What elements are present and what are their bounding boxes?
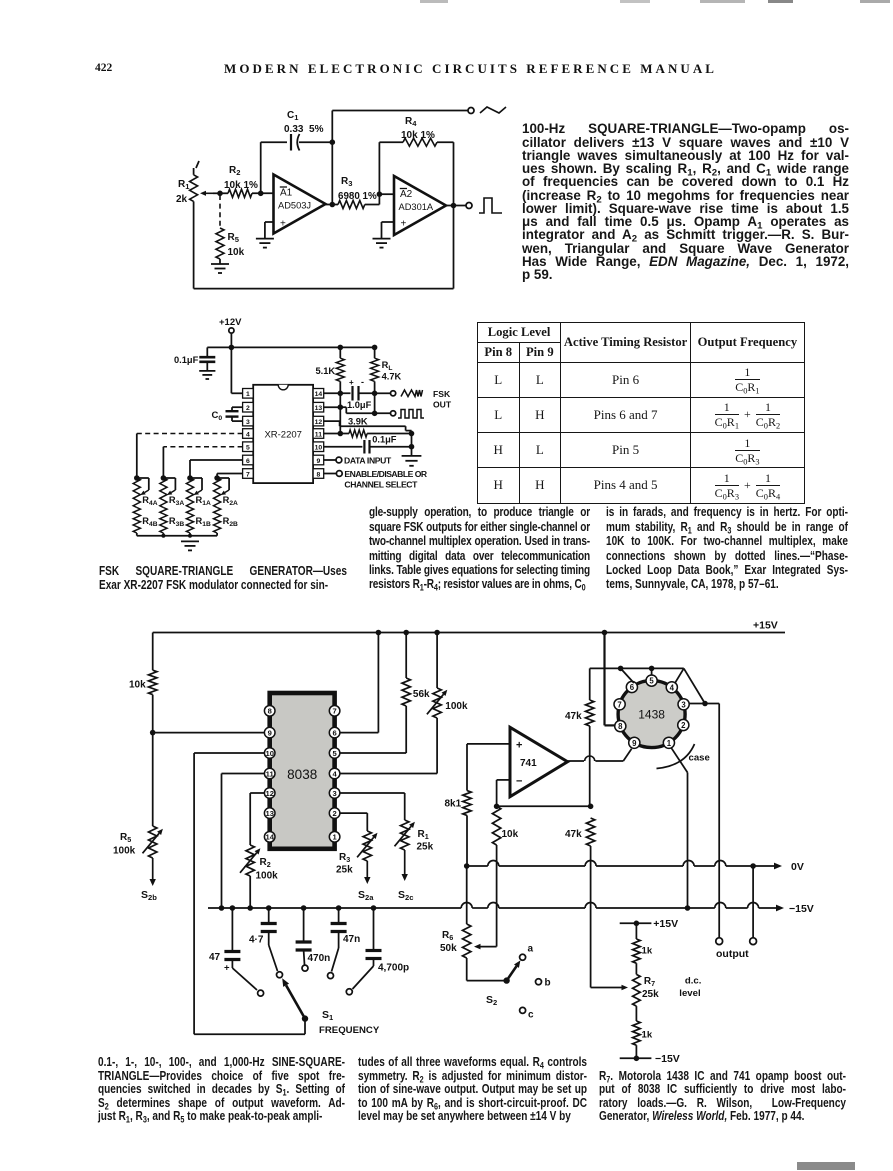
wire 47k to R7 wiper	[591, 985, 628, 991]
resistor 1k lower	[633, 1006, 641, 1058]
svg-text:9: 9	[268, 729, 272, 738]
FSK triangle waveform symbol	[401, 390, 423, 397]
wire +15V to 1438 pin8	[605, 633, 616, 726]
resistor RL 4.7K	[371, 347, 379, 413]
node A1 output	[330, 202, 336, 208]
svg-text:2k: 2k	[176, 194, 188, 205]
wire -15V stub dc chain	[620, 1056, 652, 1062]
potentiometer R2A / resistor R2B chain	[214, 475, 239, 536]
arrow 0V rail end	[774, 863, 782, 870]
wire pin8 enable	[324, 473, 337, 475]
dashed wire pin4 to R4A	[137, 434, 243, 479]
svg-text:4: 4	[670, 683, 675, 692]
svg-text:1: 1	[246, 391, 250, 398]
terminal +12V supply	[219, 317, 242, 333]
wire pin10 line	[324, 446, 363, 448]
svg-text:R1A: R1A	[196, 495, 211, 507]
svg-text:R2: R2	[260, 857, 271, 869]
terminal S1 contact 47n	[328, 973, 334, 979]
terminal S1 contact 4700p	[346, 989, 352, 995]
IC XR-2207 body	[253, 385, 313, 483]
wire R3 to A2 inverting input	[379, 194, 394, 204]
label output	[716, 948, 749, 960]
svg-text:6: 6	[246, 458, 250, 465]
wire 8038 pin3 to R1	[340, 793, 405, 820]
svg-text:R4B: R4B	[142, 516, 157, 528]
resistor 10k middle	[492, 806, 500, 946]
svg-text:5: 5	[246, 445, 250, 452]
terminal output right	[750, 938, 757, 945]
node C1 right junction	[330, 139, 336, 145]
svg-text:+: +	[349, 378, 354, 387]
label S1	[322, 1009, 334, 1022]
wire bus corner to pin3 node diagonal	[684, 668, 705, 703]
ground at A1	[256, 239, 274, 248]
svg-text:R1: R1	[418, 829, 429, 841]
svg-text:AD503J: AD503J	[278, 201, 311, 211]
label R3 value 25k	[336, 865, 353, 876]
svg-text:+12V: +12V	[219, 317, 242, 328]
svg-text:R6: R6	[442, 930, 453, 942]
label 0.1uF bypass	[174, 355, 199, 365]
node feedback left	[494, 804, 500, 810]
svg-text:+: +	[401, 219, 407, 230]
potentiometer R1A / resistor R1B chain	[186, 475, 211, 536]
svg-text:level: level	[679, 988, 700, 999]
svg-text:25k: 25k	[336, 865, 353, 876]
svg-text:470n: 470n	[308, 953, 331, 964]
node square out junction	[372, 411, 378, 417]
svg-text:R3B: R3B	[169, 516, 184, 528]
wire top output rail (triangle output)	[332, 111, 468, 143]
label 8k1	[445, 799, 462, 810]
wire 8038 pin12 to R2	[250, 793, 264, 845]
label R2	[260, 857, 271, 869]
terminal DATA INPUT	[336, 457, 342, 463]
8038 left pin circles 8-14	[264, 706, 275, 843]
wire +15V stub dc chain	[620, 921, 652, 927]
label R5	[228, 232, 240, 244]
svg-text:+: +	[280, 219, 286, 230]
label R1 bottom	[418, 829, 429, 841]
resistor 3.9K	[349, 430, 412, 437]
resistor 1k upper	[633, 923, 641, 974]
wire A2 noninverting to ground	[382, 222, 395, 239]
svg-text:12: 12	[315, 419, 323, 426]
label FSK OUT	[433, 389, 452, 410]
svg-text:741: 741	[520, 758, 537, 769]
label R3 bottom	[339, 852, 350, 864]
capacitor 470n	[296, 905, 312, 964]
wire pin13 to square output	[324, 404, 390, 413]
op-amp A2 AD301A	[394, 176, 446, 235]
svg-text:S2a: S2a	[358, 889, 374, 902]
wire feedback line	[497, 805, 591, 807]
svg-text:R5: R5	[228, 232, 240, 244]
svg-text:1: 1	[667, 739, 672, 748]
svg-text:R3: R3	[339, 852, 350, 864]
resistor R3 6980 1%	[338, 201, 379, 209]
terminal S2 contact c	[520, 1007, 526, 1013]
label S2 contact b	[545, 978, 551, 989]
wire 8038 pin5 to 56k	[340, 752, 406, 754]
svg-text:+15V: +15V	[753, 620, 778, 632]
svg-text:C0: C0	[212, 410, 223, 422]
wire 8038 pin9 to left vertical	[153, 732, 265, 734]
wire 8038 pin10 down-left	[194, 753, 264, 1034]
label R4	[405, 116, 417, 128]
node 100k rail junction	[434, 630, 440, 636]
node 3.9K left junction	[338, 431, 344, 437]
label R5 bottom	[120, 832, 131, 844]
svg-text:0.1μF: 0.1μF	[372, 434, 397, 444]
node triangle out junction	[372, 391, 378, 397]
potentiometer 100k right	[427, 633, 447, 774]
label R3	[341, 176, 352, 188]
svg-text:DATA INPUT: DATA INPUT	[344, 455, 392, 465]
resistor R6 50k	[463, 866, 471, 981]
svg-text:6: 6	[332, 729, 336, 738]
wire bus to pin5	[651, 668, 653, 675]
arrow R5 to S2b	[150, 858, 156, 886]
label R1	[178, 179, 190, 191]
capacitor 4700p	[353, 905, 382, 989]
wire 1438 pin1 case to -15V	[671, 747, 688, 908]
wire A2 output	[446, 205, 466, 207]
svg-text:S1: S1	[322, 1009, 334, 1022]
node A2 output	[451, 203, 457, 209]
svg-text:XR-2207: XR-2207	[264, 430, 302, 441]
svg-text:50k: 50k	[440, 943, 457, 954]
terminal FSK triangle output	[391, 391, 396, 396]
node 3.9K right junction	[409, 431, 415, 437]
svg-text:1438: 1438	[638, 708, 665, 722]
label R2	[229, 165, 240, 177]
svg-text:a: a	[528, 944, 534, 955]
wire A1 output vertical	[331, 142, 333, 204]
ground under R5	[211, 264, 229, 273]
svg-text:b: b	[545, 978, 551, 989]
svg-text:4: 4	[246, 431, 250, 438]
svg-text:47: 47	[209, 952, 221, 963]
op-amp A1 AD503J	[274, 175, 326, 234]
case lead arc	[657, 744, 695, 769]
terminal output left	[716, 938, 723, 945]
label 3.9K	[348, 417, 368, 427]
node pin9 left junction	[150, 730, 156, 736]
label R6 value 50k	[440, 943, 457, 954]
wire 8038 pin6 to +15V	[340, 633, 379, 733]
resistor 8k1	[463, 791, 471, 866]
XR-2207 left pin boxes 1-7	[243, 389, 254, 479]
svg-text:5.1K: 5.1K	[316, 366, 336, 376]
arrow R1 to S2c	[402, 850, 408, 881]
svg-text:R1B: R1B	[196, 516, 211, 528]
label R2 value 100k	[256, 871, 279, 882]
node 1438 bus pin6	[618, 666, 624, 672]
wire bus to pin6	[621, 668, 634, 683]
label 0V rail	[791, 861, 804, 873]
svg-text:25k: 25k	[417, 842, 434, 853]
wire 8038 pin4 to 100k	[340, 773, 437, 775]
label 47	[209, 952, 221, 963]
svg-text:8: 8	[268, 707, 272, 716]
svg-text:56k: 56k	[413, 689, 430, 700]
svg-text:A2: A2	[400, 189, 413, 200]
svg-text:CHANNEL SELECT: CHANNEL SELECT	[344, 479, 418, 489]
capacitor C0	[226, 407, 243, 421]
terminal S1 contact 470n	[302, 965, 308, 971]
label 5.1K	[316, 366, 336, 376]
wire pin6 to R1A	[190, 460, 243, 478]
svg-text:5: 5	[649, 677, 654, 686]
terminal S2 contact b	[536, 979, 542, 985]
svg-text:47n: 47n	[343, 934, 360, 945]
svg-text:R4A: R4A	[142, 495, 157, 507]
svg-text:7: 7	[246, 471, 250, 478]
potentiometer R3A / resistor R3B chain	[160, 475, 185, 536]
resistor R2 10k 1%	[228, 189, 274, 197]
svg-text:−: −	[516, 776, 522, 788]
label C1 value 0.33 5%	[284, 124, 324, 135]
wire R6 to S2 pole	[467, 980, 507, 982]
wire +12V rail	[207, 346, 374, 348]
svg-text:10k 1%: 10k 1%	[224, 180, 258, 191]
label 4.7	[249, 935, 264, 946]
wire to FSK triangle terminal	[375, 392, 390, 394]
svg-text:3.9K: 3.9K	[348, 417, 368, 427]
wire pin12 to right vertical	[324, 421, 412, 433]
wire 741 -input	[497, 780, 510, 806]
wire bottom feedback to R1	[194, 206, 454, 289]
svg-text:output: output	[716, 948, 749, 960]
wire pin9 data input	[324, 459, 336, 461]
svg-text:d.c.: d.c.	[685, 976, 702, 987]
potentiometer R3 25k	[357, 831, 377, 861]
switch S2 wiper arrow	[503, 960, 520, 983]
wire +12V vertical	[231, 333, 242, 393]
node 5.1K top	[338, 345, 344, 351]
label R5 value 10k	[228, 247, 245, 258]
terminal S1 contact 4.7	[277, 972, 283, 978]
wire R1 wiper to R2	[213, 192, 228, 194]
svg-text:10k 1%: 10k 1%	[401, 130, 435, 141]
resistor 5.1K	[336, 347, 344, 433]
svg-text:4·7: 4·7	[249, 935, 264, 946]
wire 741 output to 1438 pin9	[568, 749, 632, 761]
node pin14 junction	[338, 391, 344, 397]
ground under bypass cap	[199, 371, 215, 379]
svg-text:2: 2	[681, 721, 686, 730]
svg-text:−15V: −15V	[789, 903, 814, 915]
svg-text:14: 14	[315, 391, 323, 398]
node 1438 bus pin5	[649, 666, 655, 672]
svg-text:3: 3	[332, 789, 336, 798]
label S2 contact c	[528, 1010, 534, 1021]
svg-text:R2: R2	[229, 165, 240, 177]
wire resistor-chain common rail	[137, 534, 217, 538]
potentiometer R1 2k	[190, 161, 213, 289]
label dc level	[679, 976, 701, 1000]
capacitor 1.0uF	[349, 377, 375, 401]
1438 pin circles 1-9	[614, 675, 689, 748]
resistor R5 10k	[216, 228, 224, 264]
svg-text:+15V: +15V	[653, 918, 678, 930]
label R7 value 25k	[642, 989, 659, 1000]
wire 8038 pin11 to -15V	[222, 774, 265, 909]
svg-text:AD301A: AD301A	[399, 202, 434, 212]
svg-text:3: 3	[246, 419, 250, 426]
svg-text:1.0μF: 1.0μF	[347, 400, 372, 410]
square-wave symbol	[479, 198, 502, 213]
ground at A2	[373, 239, 391, 248]
label +15V dc chain	[653, 918, 678, 930]
svg-text:R3: R3	[341, 176, 352, 188]
label R6	[442, 930, 453, 942]
label 47n	[343, 934, 360, 945]
wire A1 output to R3	[326, 204, 339, 206]
svg-text:2: 2	[246, 405, 250, 412]
node A2 inverting input junction	[377, 191, 383, 197]
node -15V pin11	[219, 905, 225, 911]
label C1	[287, 110, 299, 122]
svg-text:10k: 10k	[129, 680, 146, 691]
svg-text:0.1μF: 0.1μF	[174, 355, 199, 365]
svg-text:8038: 8038	[287, 767, 317, 782]
terminal ENABLE	[336, 471, 342, 477]
dashed wire R2 node to R5	[219, 195, 221, 228]
svg-text:0.33 5%: 0.33 5%	[284, 124, 324, 135]
wire 1438 top bus	[590, 667, 684, 669]
svg-text:10k: 10k	[228, 247, 245, 258]
wire pin7 to R2A	[217, 474, 243, 479]
svg-text:R4: R4	[405, 116, 417, 128]
label 100k right	[445, 701, 468, 712]
svg-text:8k1: 8k1	[445, 799, 462, 810]
wire 10k to R6 wiper	[474, 944, 497, 950]
wire 0V rail	[467, 861, 774, 867]
svg-text:6: 6	[630, 683, 635, 692]
arrow -15V rail end	[776, 905, 784, 912]
label DATA INPUT	[344, 455, 392, 465]
label 56k	[413, 689, 430, 700]
svg-text:13: 13	[315, 405, 323, 412]
capacitor 0.1uF bypass	[199, 347, 215, 371]
svg-text:A1: A1	[280, 188, 293, 199]
wire +15V rail	[153, 632, 785, 634]
svg-text:11: 11	[266, 769, 275, 778]
op-amp 741	[510, 727, 568, 796]
capacitor 47n	[331, 905, 347, 971]
wire pin11 line	[324, 433, 349, 435]
svg-text:OUT: OUT	[433, 400, 452, 410]
svg-text:100k: 100k	[113, 846, 136, 857]
FSK square waveform symbol	[398, 410, 424, 419]
svg-text:R7: R7	[644, 976, 655, 988]
wire output right from 0V	[750, 863, 756, 938]
triangle-wave symbol	[480, 107, 506, 113]
wire 1438 pin3 to output	[689, 704, 720, 939]
label 47k upper	[565, 711, 582, 722]
label 470n	[308, 953, 331, 964]
svg-text:100k: 100k	[445, 701, 468, 712]
wire right vertical to ground	[411, 434, 413, 456]
node +12V rail junction	[229, 345, 235, 351]
potentiometer R5 100k	[143, 826, 163, 858]
wire 741 +input to 8k1	[467, 744, 510, 791]
label S2a	[358, 889, 374, 902]
svg-text:100k: 100k	[256, 871, 279, 882]
label 47k lower	[565, 829, 582, 840]
label 10k middle	[502, 829, 519, 840]
svg-text:1k: 1k	[642, 946, 653, 957]
terminal S2 contact a	[520, 954, 526, 960]
svg-text:S2: S2	[486, 994, 497, 1007]
label 10k top-left	[129, 680, 146, 691]
capacitor C1	[291, 134, 300, 151]
label case	[689, 753, 710, 764]
node pin6 rail junction	[376, 630, 382, 636]
potentiometer R1 25k	[395, 820, 415, 850]
svg-text:8: 8	[317, 471, 321, 478]
label FREQUENCY	[319, 1025, 380, 1036]
wire 8038 pin2 to R3	[340, 813, 367, 831]
svg-text:25k: 25k	[642, 989, 659, 1000]
label S2	[486, 994, 497, 1007]
label 1k upper	[642, 946, 653, 957]
label R1 value 25k	[417, 842, 434, 853]
svg-text:1k: 1k	[642, 1030, 653, 1041]
svg-text:-: -	[361, 377, 364, 387]
svg-text:47k: 47k	[565, 829, 582, 840]
svg-text:R3A: R3A	[169, 495, 184, 507]
label 4700p	[378, 963, 409, 974]
XR-2207 right pin boxes 8-14	[313, 389, 324, 479]
svg-text:FREQUENCY: FREQUENCY	[319, 1025, 380, 1036]
label RL value 4.7K	[382, 372, 402, 382]
svg-text:RL: RL	[382, 360, 393, 372]
svg-text:R5: R5	[120, 832, 131, 844]
svg-text:9: 9	[632, 739, 637, 748]
label +15V rail	[753, 620, 778, 632]
label R2 value 10k 1%	[224, 180, 258, 191]
node +15V to 1438	[602, 630, 608, 636]
node 0.1uF right junction	[409, 444, 415, 450]
potentiometer R2 100k	[240, 845, 260, 908]
resistor 47k lower	[586, 818, 594, 988]
svg-text:−15V: −15V	[655, 1053, 680, 1065]
svg-text:case: case	[689, 753, 710, 764]
svg-text:ENABLE/DISABLE OR: ENABLE/DISABLE OR	[344, 469, 428, 479]
capacitor 47 electrolytic	[224, 905, 257, 990]
node 8k1 0V junction	[464, 863, 470, 869]
svg-text:6980 1%: 6980 1%	[338, 191, 377, 202]
label RL	[382, 360, 393, 372]
svg-text:4.7K: 4.7K	[382, 372, 402, 382]
node -15V R2	[247, 905, 253, 911]
svg-text:7: 7	[332, 707, 336, 716]
wire pin14 line	[324, 392, 351, 394]
wire C1 feedback branch	[261, 142, 333, 193]
IC 1438 body	[618, 681, 685, 748]
svg-text:7: 7	[617, 700, 621, 709]
svg-text:S2b: S2b	[141, 889, 157, 902]
potentiometer R7 25k	[633, 974, 641, 1006]
switch S1 wiper arrow	[282, 978, 308, 1022]
label S2b	[141, 889, 157, 902]
svg-text:10: 10	[265, 749, 273, 758]
label -15V rail	[789, 903, 814, 915]
